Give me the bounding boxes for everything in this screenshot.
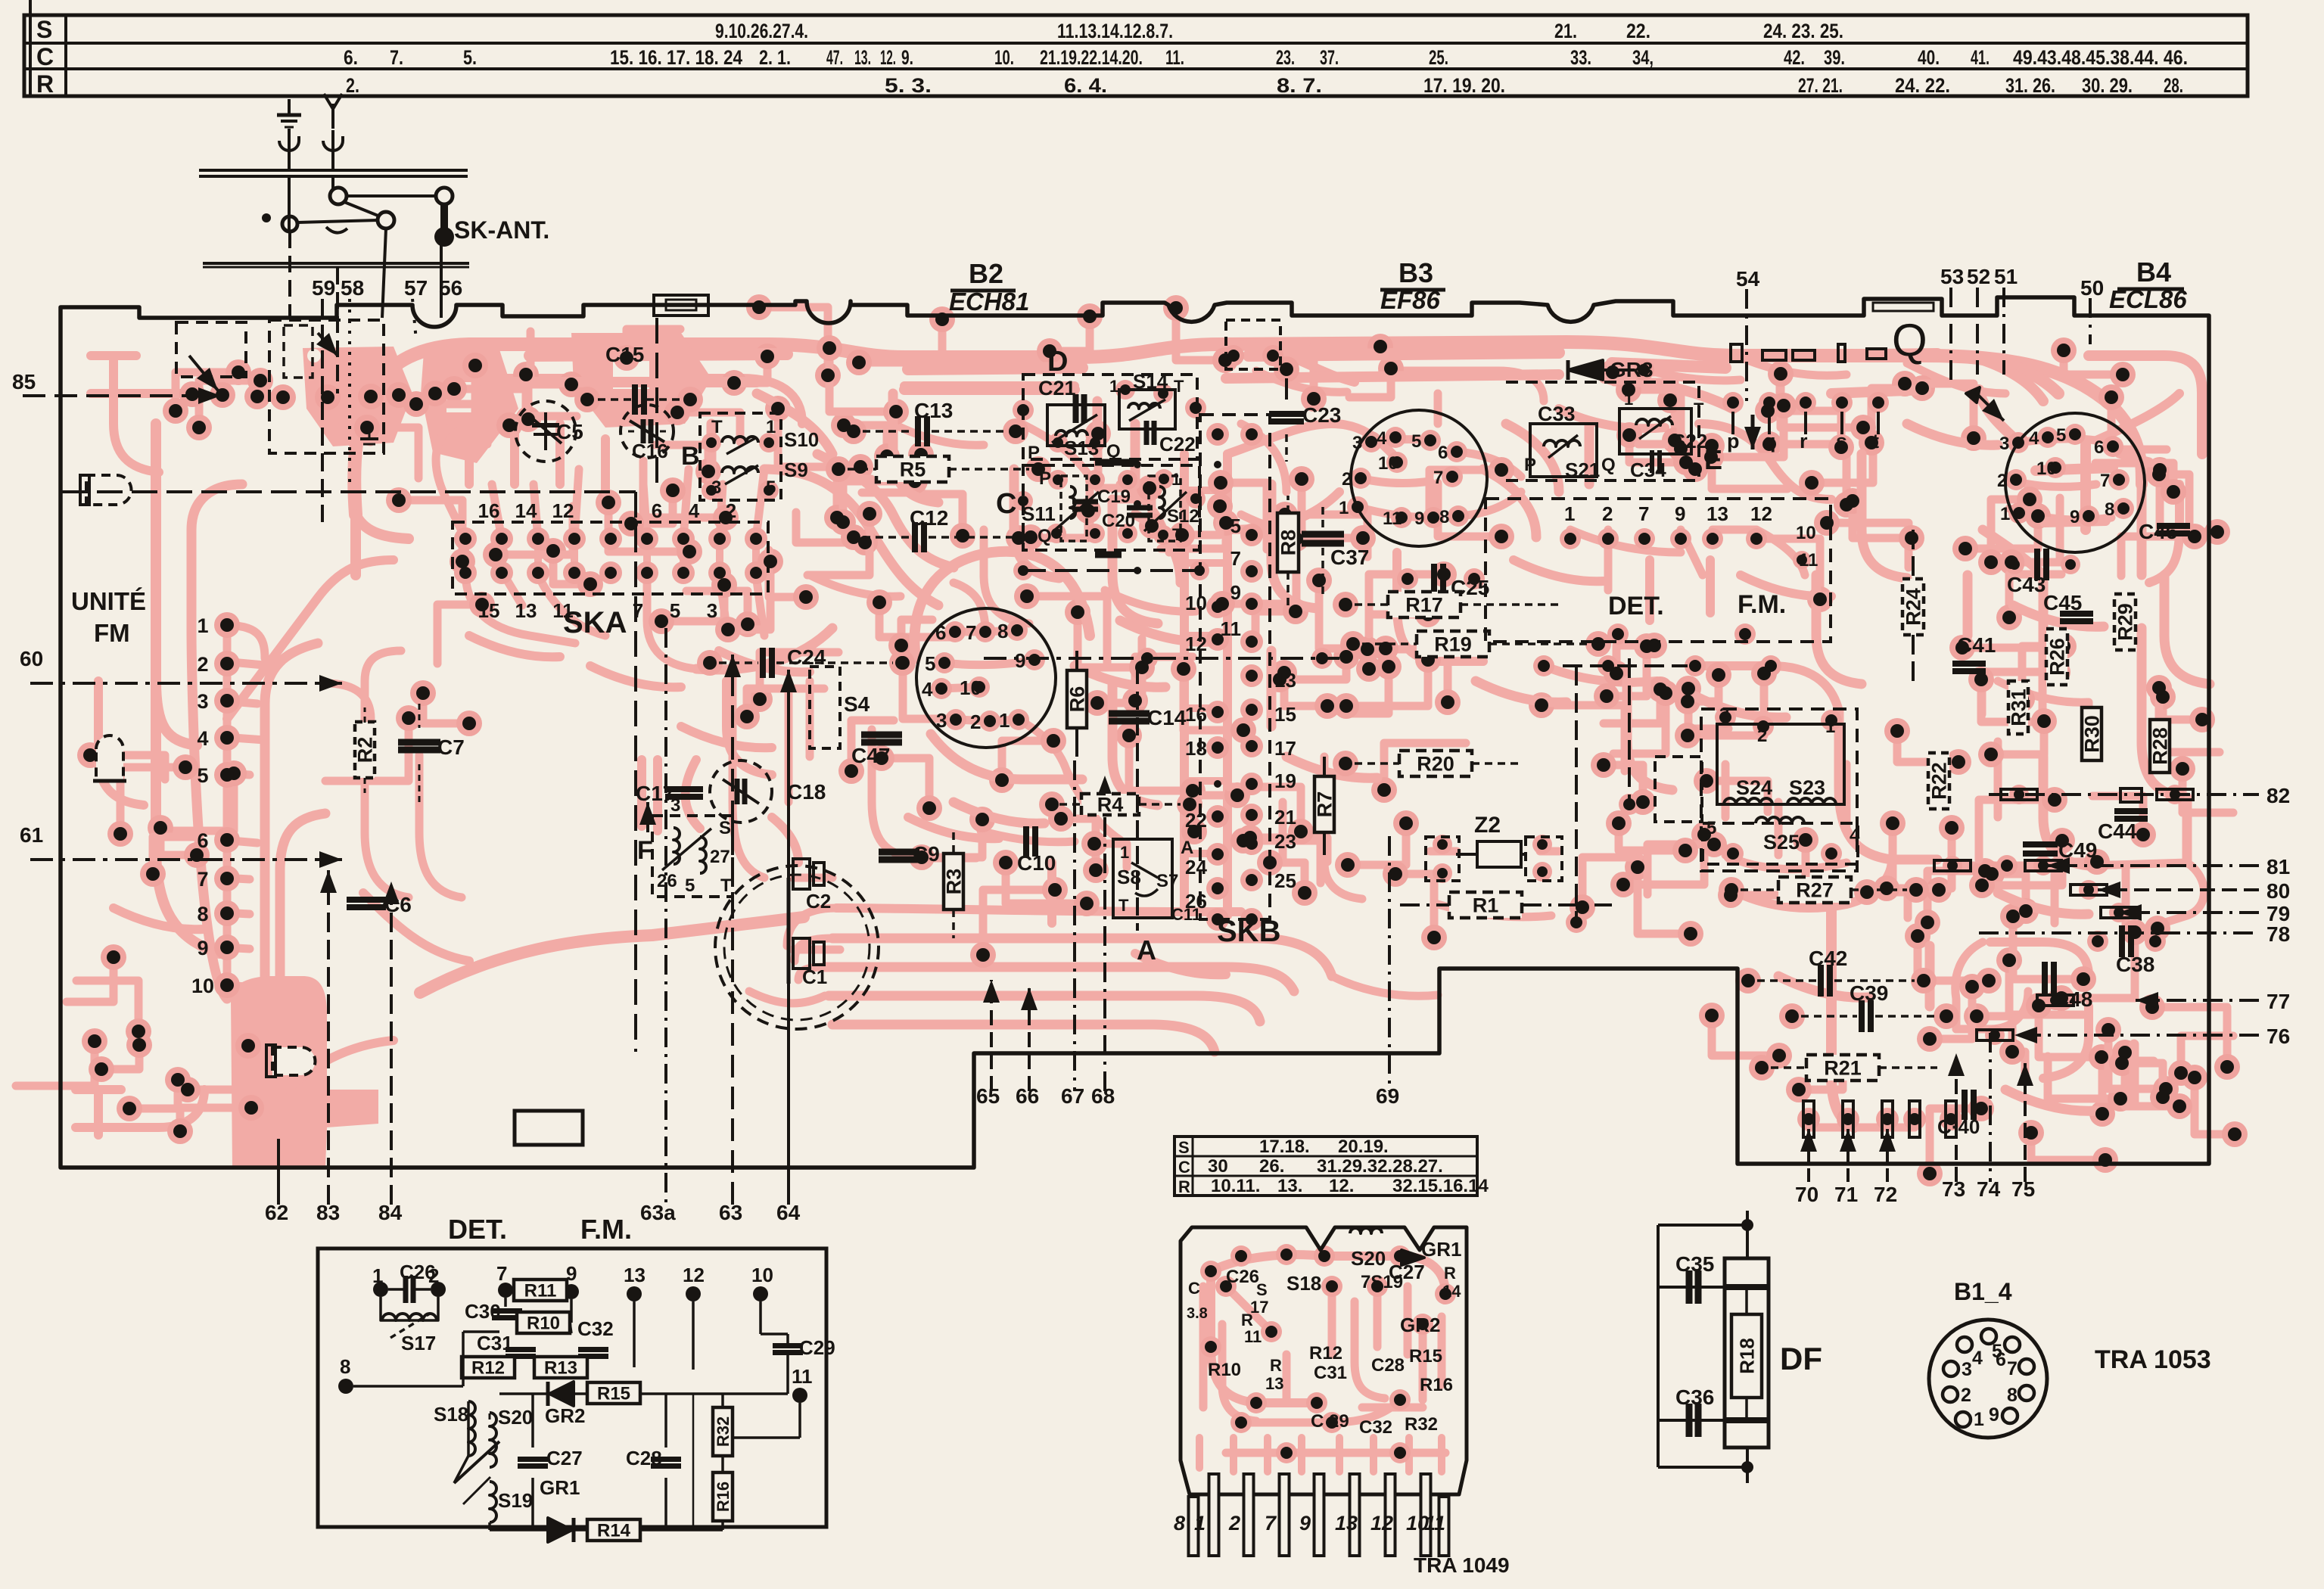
svg-text:R15: R15 <box>597 1384 630 1404</box>
svg-text:13: 13 <box>1265 1374 1283 1393</box>
svg-text:6. 4.: 6. 4. <box>1064 74 1107 97</box>
svg-text:3: 3 <box>707 599 717 622</box>
svg-text:1: 1 <box>766 417 776 437</box>
svg-text:51: 51 <box>1994 265 2018 288</box>
wire leader 58 dashdot <box>348 299 351 484</box>
svg-text:6: 6 <box>1438 443 1448 463</box>
copper pads top-left group <box>303 347 412 446</box>
svg-text:GR1: GR1 <box>1421 1238 1461 1261</box>
node 63 leader <box>731 655 734 1205</box>
svg-text:R: R <box>36 70 54 98</box>
svg-text:C2: C2 <box>806 890 831 913</box>
node 74 leader <box>1989 1033 1992 1182</box>
svg-text:1: 1 <box>1194 1512 1206 1535</box>
svg-text:R21: R21 <box>1824 1057 1862 1080</box>
svg-text:39.: 39. <box>1824 46 1845 69</box>
svg-text:11: 11 <box>1221 617 1242 640</box>
svg-text:23.: 23. <box>1276 46 1295 69</box>
svg-text:C14: C14 <box>1147 706 1187 729</box>
svg-text:SK-ANT.: SK-ANT. <box>454 216 549 244</box>
wire dash vertical 63a upper <box>655 318 658 492</box>
svg-text:13: 13 <box>624 1264 646 1286</box>
svg-text:TRA 1049: TRA 1049 <box>1414 1553 1510 1577</box>
svg-text:R17: R17 <box>1405 594 1443 617</box>
svg-text:7.: 7. <box>390 46 403 69</box>
copper auto pad clusters <box>627 329 680 358</box>
schematic bottom wires <box>467 1401 470 1456</box>
node 66 leader <box>1028 987 1031 1091</box>
copper trace right of B3 lower <box>1476 681 1786 790</box>
svg-text:R5: R5 <box>900 459 926 481</box>
svg-text:C18: C18 <box>787 780 826 804</box>
copper right top column <box>1968 356 2202 454</box>
svg-text:10: 10 <box>2036 459 2057 479</box>
svg-text:9: 9 <box>1230 581 1241 604</box>
resistor R18 <box>1731 1314 1762 1398</box>
circuit DF wires <box>1658 1224 1747 1227</box>
connector SKB right column pads <box>1246 428 1258 440</box>
svg-text:7: 7 <box>1638 502 1649 525</box>
svg-text:T: T <box>1118 896 1129 915</box>
capacitor C46 <box>2157 523 2190 529</box>
svg-text:C 29: C 29 <box>1311 1411 1349 1432</box>
svg-text:9: 9 <box>1299 1512 1311 1535</box>
svg-text:C24: C24 <box>787 645 826 669</box>
svg-text:C28: C28 <box>626 1447 662 1469</box>
svg-text:C49: C49 <box>2058 838 2097 862</box>
svg-text:R12: R12 <box>471 1358 505 1379</box>
svg-text:72: 72 <box>1874 1183 1897 1206</box>
svg-text:2: 2 <box>1342 469 1352 490</box>
connector SKA dashed box <box>453 522 768 594</box>
switch box E <box>1506 382 1699 480</box>
transformer S25 box <box>1703 823 1858 864</box>
copper trace bottom right fill <box>1778 946 2134 1111</box>
svg-text:50: 50 <box>2080 276 2104 300</box>
svg-text:64: 64 <box>776 1201 801 1224</box>
svg-text:70: 70 <box>1795 1183 1818 1206</box>
svg-text:C32: C32 <box>577 1317 614 1340</box>
svg-text:3: 3 <box>1962 1359 1972 1380</box>
svg-text:2: 2 <box>726 499 736 522</box>
svg-text:S4: S4 <box>844 692 870 716</box>
copper vertical unite-fm 2 <box>191 484 242 999</box>
svg-text:5: 5 <box>670 599 680 622</box>
copper pads top-left group 2 <box>421 350 518 463</box>
copper trace EF86 top link <box>1222 342 1604 382</box>
node 78 leader <box>1979 931 2259 934</box>
copper blob bottom-left <box>231 976 378 1168</box>
svg-text:C: C <box>36 43 54 70</box>
svg-text:26: 26 <box>657 871 677 891</box>
svg-text:58: 58 <box>341 276 364 300</box>
svg-text:2: 2 <box>1602 502 1613 525</box>
strap pads bottom right group <box>1803 1101 1814 1137</box>
svg-text:A: A <box>1137 934 1156 966</box>
copper trace far right mid <box>1998 681 2089 817</box>
node 83 leader <box>327 870 330 1205</box>
copper bundle center-bottom <box>836 908 1241 912</box>
svg-text:9: 9 <box>1989 1404 1999 1426</box>
capacitor C1 <box>793 938 810 969</box>
ground symbol antenna <box>288 99 291 115</box>
capacitor C35 <box>1686 1270 1693 1304</box>
copper SKA region mesh <box>465 539 756 571</box>
svg-text:8. 7.: 8. 7. <box>1277 74 1322 97</box>
svg-text:2: 2 <box>197 653 208 676</box>
svg-text:22.: 22. <box>1626 20 1650 42</box>
svg-text:10.: 10. <box>994 46 1014 69</box>
svg-text:S20: S20 <box>1351 1247 1386 1270</box>
svg-text:7: 7 <box>966 621 976 644</box>
switch box A <box>1113 839 1172 918</box>
svg-text:R12: R12 <box>1309 1343 1342 1364</box>
capacitor C36 <box>1686 1404 1693 1437</box>
copper B4 socket web <box>2007 439 2149 520</box>
svg-text:Q: Q <box>1106 441 1121 462</box>
svg-text:18: 18 <box>1185 737 1207 760</box>
svg-text:81: 81 <box>2266 855 2290 878</box>
svg-text:7: 7 <box>2007 1358 2018 1379</box>
copper trace B4 to right edge <box>2096 393 2179 583</box>
svg-text:F.M.: F.M. <box>1738 590 1786 619</box>
electrolytic C1 C2 outline <box>715 866 879 1029</box>
node 79 leader <box>2119 911 2259 914</box>
svg-text:7: 7 <box>1265 1512 1277 1535</box>
svg-text:B4: B4 <box>2136 257 2171 288</box>
svg-text:R: R <box>1270 1356 1282 1375</box>
svg-text:3: 3 <box>936 709 947 732</box>
svg-text:S20: S20 <box>498 1406 533 1429</box>
coil S17 <box>382 1314 437 1320</box>
copper trace top highway branch B4 <box>1926 356 2142 484</box>
pads box D <box>1017 404 1029 416</box>
dashed tab above B3 <box>1226 320 1280 369</box>
svg-text:R10: R10 <box>1208 1360 1241 1380</box>
svg-text:C35: C35 <box>1675 1252 1714 1276</box>
svg-text:9: 9 <box>1675 502 1685 525</box>
svg-text:B2: B2 <box>969 258 1003 289</box>
node 68 leader <box>1103 776 1106 1091</box>
coil S4 <box>810 667 840 748</box>
copper S24 S25 region <box>1725 764 1846 869</box>
svg-text:2: 2 <box>1228 1512 1240 1535</box>
svg-text:3: 3 <box>197 690 208 713</box>
wire 64 riser <box>787 878 791 984</box>
node 84 leader <box>390 882 393 1205</box>
svg-text:21.19.22.14.20.: 21.19.22.14.20. <box>1040 46 1143 69</box>
svg-text:27: 27 <box>710 847 730 867</box>
svg-text:1: 1 <box>1974 1409 1984 1430</box>
svg-text:24: 24 <box>1185 856 1207 878</box>
svg-text:6: 6 <box>652 499 662 522</box>
copper trace SKB to B3 <box>1227 424 1392 530</box>
copper trace R7 region <box>1283 757 1362 899</box>
svg-text:C45: C45 <box>2043 591 2082 614</box>
svg-text:C26: C26 <box>1226 1267 1259 1287</box>
svg-text:S: S <box>719 818 731 838</box>
resistor R1 <box>1449 892 1522 918</box>
trimmer circle C18 <box>710 760 772 822</box>
copper trace under C24 <box>681 681 772 775</box>
svg-text:S19: S19 <box>498 1489 533 1512</box>
copper diagonal highway to bundle <box>420 917 804 993</box>
capacitor C28 schematic <box>651 1457 681 1462</box>
svg-text:3: 3 <box>1999 434 2009 454</box>
resistor R29 <box>2114 594 2136 650</box>
arrow to pad 85 <box>189 356 218 390</box>
copper trace SKA under-fill <box>469 636 810 687</box>
board top tab detail <box>654 295 708 316</box>
svg-text:57: 57 <box>404 276 428 300</box>
svg-text:S22: S22 <box>1672 430 1707 452</box>
svg-text:41.: 41. <box>1971 46 1990 69</box>
svg-text:26.: 26. <box>1259 1156 1284 1177</box>
svg-text:2. 1.: 2. 1. <box>759 46 791 69</box>
svg-text:6: 6 <box>1996 1349 2006 1370</box>
svg-text:C31: C31 <box>1314 1363 1347 1383</box>
copper highway reinforcement <box>530 353 1937 369</box>
capacitor C25 <box>1431 564 1437 594</box>
svg-text:26: 26 <box>1185 890 1207 913</box>
svg-text:4: 4 <box>689 499 700 522</box>
node 85 leader <box>23 394 221 397</box>
svg-text:37.: 37. <box>1320 46 1339 69</box>
svg-text:C16: C16 <box>632 440 668 462</box>
capacitor C47 <box>861 732 902 739</box>
capacitor C43 <box>2034 549 2040 580</box>
svg-text:71: 71 <box>1834 1183 1858 1206</box>
pads top-left row <box>185 387 199 401</box>
svg-text:Q: Q <box>1601 455 1616 475</box>
svg-text:C17: C17 <box>636 782 674 805</box>
svg-text:73: 73 <box>1942 1177 1965 1201</box>
svg-text:17. 19. 20.: 17. 19. 20. <box>1423 74 1505 97</box>
svg-text:Q: Q <box>1892 315 1927 365</box>
box DET FM dashed <box>1486 499 1831 642</box>
svg-text:C44: C44 <box>2098 819 2137 843</box>
svg-text:5: 5 <box>925 652 935 675</box>
svg-text:24. 23. 25.: 24. 23. 25. <box>1763 20 1843 42</box>
svg-text:6: 6 <box>197 829 208 852</box>
svg-text:GR1: GR1 <box>540 1476 580 1499</box>
lamp symbol top-left <box>86 475 132 505</box>
svg-text:UNITÉ: UNITÉ <box>71 587 146 615</box>
copper inside B4 <box>1979 390 2113 530</box>
svg-text:85: 85 <box>12 370 36 393</box>
node 60 leader <box>30 682 342 685</box>
copper trunk SKA to B2 <box>696 469 938 670</box>
tube socket B3 <box>1351 410 1487 546</box>
svg-text:S: S <box>1178 1138 1190 1157</box>
svg-text:8: 8 <box>1439 507 1449 527</box>
copper trace right lower maze <box>1956 863 2204 932</box>
module pads <box>1200 1261 1221 1282</box>
copper trace B3 to DET <box>1483 424 1589 537</box>
svg-text:10: 10 <box>960 676 982 699</box>
svg-text:5. 3.: 5. 3. <box>885 74 932 97</box>
capacitor C41 <box>1952 661 1986 667</box>
svg-text:25: 25 <box>1274 869 1296 892</box>
svg-text:C22: C22 <box>1159 433 1196 456</box>
svg-text:R26: R26 <box>2046 638 2069 676</box>
arrow to pad 58 <box>318 333 338 356</box>
svg-text:R20: R20 <box>1417 753 1454 776</box>
node 81 leader <box>2047 864 2259 867</box>
switch SK-ANT <box>330 188 347 204</box>
svg-text:34,: 34, <box>1632 46 1654 69</box>
svg-text:R4: R4 <box>1097 794 1124 816</box>
svg-text:A: A <box>1181 838 1193 858</box>
svg-text:11.: 11. <box>1165 46 1184 69</box>
resistor R14 schematic <box>587 1519 640 1541</box>
svg-text:84: 84 <box>378 1201 403 1224</box>
copper pads top-left group 3 <box>571 333 711 428</box>
svg-text:S18: S18 <box>434 1403 468 1426</box>
svg-text:S21: S21 <box>1565 459 1600 481</box>
copper trace top mid maze2 <box>984 484 1196 623</box>
svg-text:C: C <box>1178 1158 1190 1177</box>
module diode GR1 symbol <box>1402 1250 1424 1265</box>
svg-text:74: 74 <box>1977 1177 2001 1201</box>
svg-text:7: 7 <box>197 868 208 891</box>
top connection table frame <box>24 15 2248 96</box>
svg-text:S25: S25 <box>1763 831 1800 854</box>
svg-text:4: 4 <box>2029 428 2039 449</box>
svg-text:10: 10 <box>1378 453 1398 474</box>
copper trace left drop SKA <box>356 515 409 575</box>
svg-text:24. 22.: 24. 22. <box>1895 74 1950 97</box>
copper trace skb left maze <box>1112 424 1158 805</box>
svg-text:10: 10 <box>191 975 214 997</box>
capacitor C44 <box>2114 808 2148 814</box>
svg-text:52: 52 <box>1967 265 1990 288</box>
copper trace top mid fill2 <box>1075 515 1211 687</box>
transformer box DF <box>1725 1258 1769 1448</box>
svg-text:4: 4 <box>197 727 208 750</box>
copper trace B2 lower web <box>931 734 1082 823</box>
capacitor C7 <box>398 739 440 746</box>
resistor R17 <box>1388 592 1461 617</box>
svg-text:68: 68 <box>1091 1084 1115 1108</box>
svg-text:S24: S24 <box>1736 776 1772 799</box>
copper trace left lower fill <box>98 681 204 929</box>
capacitor C45 <box>2060 611 2093 617</box>
svg-text:2: 2 <box>1961 1385 1971 1406</box>
svg-text:27. 21.: 27. 21. <box>1798 74 1843 97</box>
tube socket B4 <box>2005 413 2145 552</box>
coil S22 <box>1619 409 1691 454</box>
svg-text:30. 29.: 30. 29. <box>2082 74 2133 97</box>
copper vertical pair under F box <box>642 760 658 831</box>
svg-text:12: 12 <box>1750 502 1772 525</box>
svg-text:40.: 40. <box>1918 46 1940 69</box>
copper trace top highway <box>354 342 2111 515</box>
node 64 leader <box>787 670 790 1205</box>
svg-text:23: 23 <box>1274 830 1296 853</box>
copper trace skb right maze <box>1271 484 1377 778</box>
svg-text:C36: C36 <box>1675 1385 1714 1409</box>
svg-text:6.: 6. <box>344 46 358 69</box>
resistor R22 <box>1928 753 1949 809</box>
svg-text:R7: R7 <box>1314 791 1336 818</box>
svg-text:C37: C37 <box>1330 546 1369 569</box>
svg-text:R14: R14 <box>597 1521 631 1541</box>
module coil S20 symbol <box>1350 1228 1382 1233</box>
transformer S24 S23 outer dashed box <box>1701 709 1857 871</box>
resistor R20 <box>1399 751 1472 776</box>
resistor R11 schematic <box>514 1280 567 1301</box>
copper bottom right pads web <box>1809 991 2028 1127</box>
capacitor C2 <box>793 859 810 889</box>
lamp symbol lower-left <box>272 1047 316 1075</box>
board top-right slot detail <box>1873 303 1934 311</box>
svg-text:53: 53 <box>1940 265 1964 288</box>
rect cutout lower-left <box>515 1111 583 1145</box>
copper second highway <box>484 375 1926 409</box>
svg-text:13: 13 <box>515 599 537 622</box>
ground symbol SKA <box>369 424 371 439</box>
trimmer arrow <box>454 1441 499 1483</box>
copper trace D C boxes region <box>1256 371 1544 424</box>
svg-text:12.: 12. <box>1329 1176 1354 1196</box>
svg-text:C6: C6 <box>384 893 412 916</box>
svg-text:S7: S7 <box>1156 871 1178 891</box>
svg-text:R13: R13 <box>544 1358 577 1379</box>
copper trace left mid connector <box>325 393 371 719</box>
svg-text:S12: S12 <box>1167 506 1199 527</box>
wire leader 57 <box>412 299 416 340</box>
svg-text:T: T <box>1172 525 1183 544</box>
chassis rail lower double line <box>203 262 469 265</box>
svg-text:6: 6 <box>2094 437 2104 458</box>
dashed box left of S24 <box>1655 757 1702 822</box>
svg-text:SKA: SKA <box>563 606 627 639</box>
svg-text:1: 1 <box>1339 498 1349 518</box>
copper trace gr3 region <box>1650 371 1780 409</box>
node 62 leader <box>277 1139 280 1205</box>
svg-text:11.13.14.12.8.7.: 11.13.14.12.8.7. <box>1057 20 1173 42</box>
svg-text:TRA 1053: TRA 1053 <box>2095 1345 2211 1374</box>
svg-text:10.11.: 10.11. <box>1211 1176 1260 1196</box>
svg-text:R: R <box>1178 1177 1190 1196</box>
svg-text:12: 12 <box>1185 633 1207 655</box>
svg-text:10: 10 <box>1185 592 1207 614</box>
antenna symbol <box>324 94 342 129</box>
svg-text:5: 5 <box>1230 515 1241 537</box>
resistor R19 <box>1417 631 1489 657</box>
svg-text:12: 12 <box>552 499 574 522</box>
node 71 leader <box>1846 1129 1850 1182</box>
svg-text:9.10.26.27.4.: 9.10.26.27.4. <box>715 20 808 42</box>
svg-text:8: 8 <box>997 620 1008 642</box>
dashed box top-left 1 <box>176 322 246 377</box>
copper trace mid-left top patch <box>711 393 938 502</box>
lamp symbol mid-left <box>96 735 123 781</box>
svg-text:R32: R32 <box>1405 1414 1438 1435</box>
svg-text:3.8: 3.8 <box>1187 1305 1208 1322</box>
svg-text:R16: R16 <box>714 1482 733 1512</box>
svg-text:21: 21 <box>1274 806 1296 829</box>
svg-text:7: 7 <box>633 599 643 622</box>
svg-text:R10: R10 <box>527 1314 560 1334</box>
svg-text:1: 1 <box>1120 843 1129 862</box>
svg-text:9: 9 <box>197 937 208 959</box>
resistor R31 <box>2008 681 2028 734</box>
svg-text:DET.: DET. <box>448 1214 507 1245</box>
svg-text:5: 5 <box>2056 425 2066 446</box>
svg-text:R28: R28 <box>2149 727 2172 765</box>
